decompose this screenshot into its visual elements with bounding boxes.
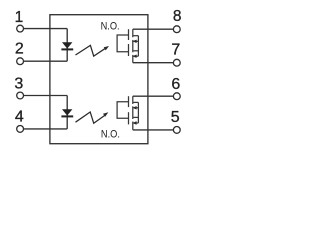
pin 2 terminal bbox=[17, 58, 24, 65]
wire drain A to pin 8 bbox=[133, 28, 174, 30]
pin 3 terminal bbox=[17, 92, 24, 99]
MOSFET U1 lower gate bar bbox=[128, 44, 130, 56]
MOSFET U2 gate drive loop bbox=[117, 102, 128, 118]
MOSFET U2 channel segment middle bbox=[132, 106, 134, 119]
LED D1 triangle bbox=[62, 42, 72, 48]
svg-text:7: 7 bbox=[171, 41, 180, 58]
wire pin2 to LED1 cathode bbox=[24, 60, 68, 62]
wire pin1 to LED1 anode bbox=[24, 28, 68, 30]
MOSFET U2 channel segment drain B bbox=[132, 122, 134, 130]
MOSFET U1 body arrow B bbox=[136, 55, 139, 57]
MOSFET U2 lower gate bar bbox=[128, 112, 130, 124]
MOSFET U2 upper gate bar bbox=[128, 96, 130, 107]
MOSFET U1 upper gate bar bbox=[128, 29, 130, 40]
MOSFET U2 body arrow A bbox=[136, 107, 139, 109]
svg-text:8: 8 bbox=[173, 8, 182, 25]
wire LED2 branch vertical bbox=[66, 96, 68, 129]
MOSFET U1 channel segment middle bbox=[132, 40, 134, 52]
pin 8 terminal bbox=[173, 26, 180, 33]
MOSFET U1 body arrow A bbox=[136, 40, 139, 42]
LED D2 cathode bar bbox=[61, 115, 73, 117]
light emission arrow channel 1 bbox=[76, 45, 106, 56]
package outline box bbox=[50, 15, 148, 144]
light arrow head channel 1 bbox=[104, 46, 109, 50]
wire pin3 to LED2 anode bbox=[24, 95, 68, 97]
pin 5 terminal bbox=[173, 126, 180, 133]
wire LED1 branch vertical bbox=[66, 29, 68, 62]
pin 1 terminal bbox=[17, 25, 24, 32]
pin 4 terminal bbox=[17, 125, 24, 132]
MOSFET U2 source stub A bbox=[133, 101, 138, 103]
MOSFET U1 channel segment drain B bbox=[132, 55, 134, 63]
pin 6 terminal bbox=[173, 93, 180, 100]
svg-text:2: 2 bbox=[15, 41, 24, 58]
MOSFET U1 source stub A bbox=[133, 35, 138, 37]
wire pin4 to LED2 cathode bbox=[24, 128, 68, 130]
light emission arrow channel 2 bbox=[76, 112, 106, 123]
MOSFET U1 source stub B bbox=[133, 50, 138, 52]
MOSFET U2 channel segment drain A bbox=[132, 96, 134, 104]
svg-text:N.O.: N.O. bbox=[101, 128, 120, 140]
MOSFET U2 source stub B bbox=[133, 116, 138, 118]
svg-text:5: 5 bbox=[171, 109, 180, 126]
MOSFET U2 body arrow B bbox=[136, 122, 139, 124]
MOSFET U2 common source bus bbox=[137, 102, 139, 123]
wire drain B to pin 7 bbox=[133, 62, 174, 64]
MOSFET U1 common source bus bbox=[137, 36, 139, 57]
svg-text:6: 6 bbox=[171, 76, 180, 93]
MOSFET U1 gate drive loop bbox=[117, 35, 128, 52]
svg-text:1: 1 bbox=[15, 9, 24, 26]
pin 7 terminal bbox=[173, 59, 180, 66]
svg-text:3: 3 bbox=[14, 76, 23, 93]
svg-text:N.O.: N.O. bbox=[101, 20, 120, 32]
MOSFET U1 channel segment drain A bbox=[132, 29, 134, 37]
light arrow head channel 2 bbox=[103, 112, 108, 117]
LED D1 cathode bar bbox=[61, 48, 73, 50]
wire drain A to pin 6 bbox=[133, 95, 174, 97]
LED D2 triangle bbox=[62, 109, 72, 115]
wire drain B to pin 5 bbox=[133, 129, 174, 131]
svg-text:4: 4 bbox=[15, 109, 24, 126]
